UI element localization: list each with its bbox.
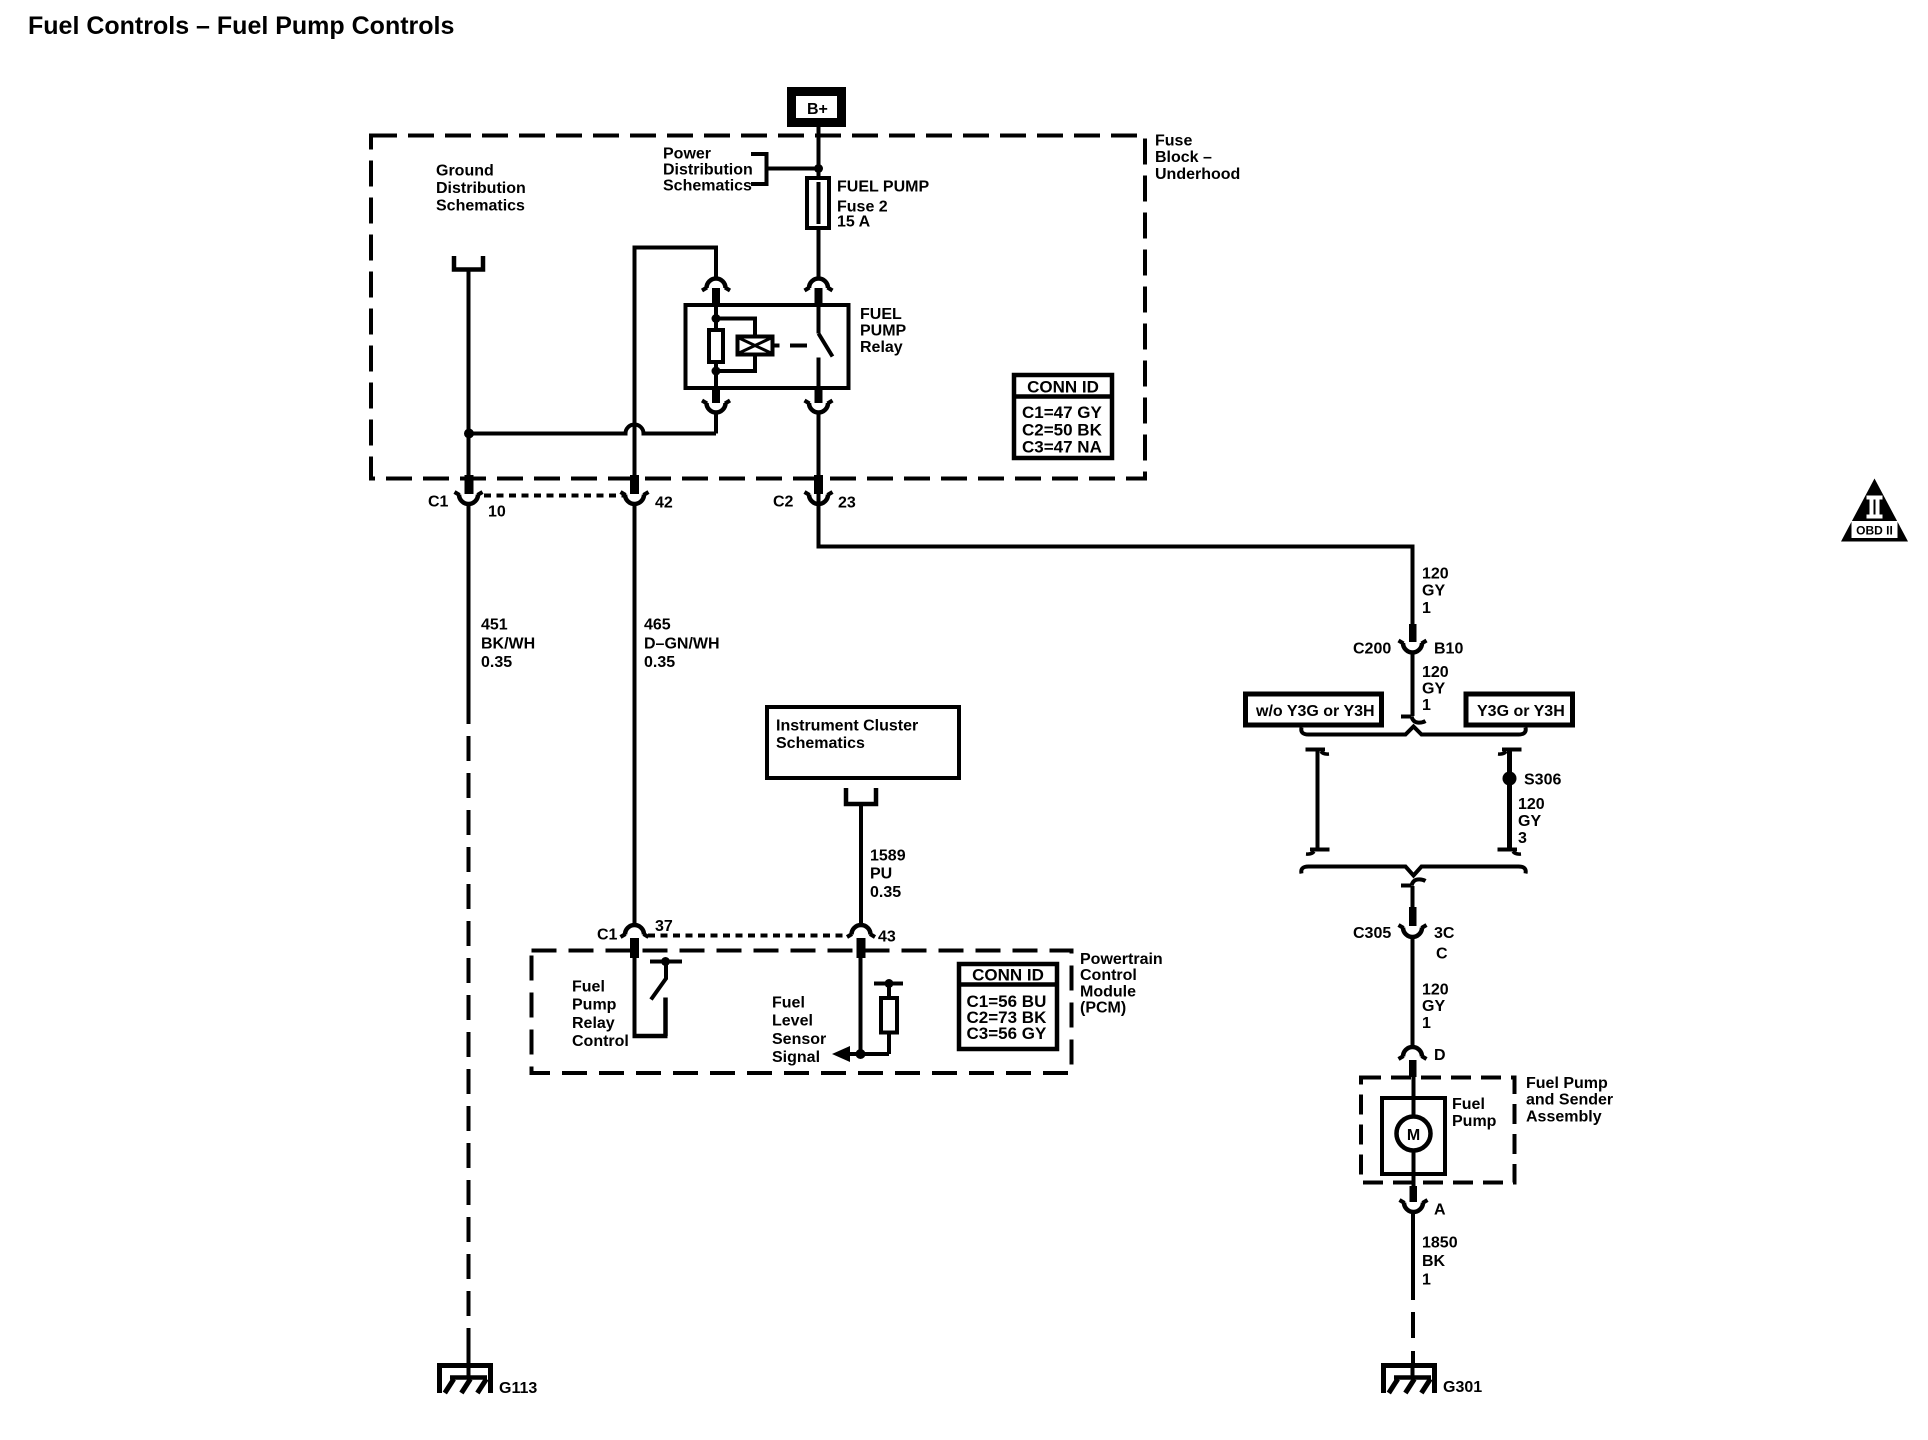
label 465 D-GN/WH 0.35 (644, 617, 720, 672)
svg-text:D–GN/WH: D–GN/WH (644, 636, 720, 653)
svg-text:0.35: 0.35 (870, 884, 901, 901)
CONN ID table PCM (959, 964, 1057, 1049)
wire 451 BK/WH solid part (467, 505, 471, 724)
label Fuel Pump Relay Control (572, 979, 629, 1051)
svg-text:Fuel Pump: Fuel Pump (1526, 1075, 1608, 1092)
wire 120 GY C305 to fuel pump D (1411, 938, 1415, 1049)
CONN ID table fuse block (1014, 375, 1112, 458)
svg-text:(PCM): (PCM) (1080, 1000, 1126, 1017)
ground G301 (1384, 1363, 1483, 1396)
svg-text:1: 1 (1422, 1015, 1431, 1032)
svg-text:C: C (1436, 946, 1448, 963)
wire coil to switch actuator dashed (773, 344, 780, 348)
branch right Y3G wire with splice (1498, 750, 1522, 855)
node coil top junction (712, 314, 721, 323)
instrument cluster tap symbol (846, 788, 876, 804)
svg-text:43: 43 (878, 929, 896, 946)
svg-text:Schematics: Schematics (436, 198, 525, 215)
svg-text:C200: C200 (1353, 641, 1391, 658)
wire 465 D-GN/WH pin42 to PCM pin37 (633, 505, 637, 925)
ground distribution tap symbol (454, 256, 483, 270)
wire power distribution tap (767, 167, 819, 171)
svg-text:Control: Control (572, 1033, 629, 1050)
svg-text:1589: 1589 (870, 848, 906, 865)
svg-text:Schematics: Schematics (776, 735, 865, 752)
label Ground Distribution Schematics (436, 163, 526, 215)
svg-text:1: 1 (1422, 1272, 1431, 1289)
label FUEL PUMP Fuse 2 15 A (837, 179, 929, 231)
node junction at B+ feed (814, 164, 823, 173)
label Fuel Level Sensor Signal (772, 995, 826, 1067)
fuel pump motor box (1382, 1098, 1445, 1174)
svg-text:A: A (1434, 1202, 1446, 1219)
battery feed B+ terminal (792, 92, 842, 123)
svg-text:451: 451 (481, 617, 508, 634)
relay coil branch left (714, 305, 718, 331)
svg-text:w/o Y3G or Y3H: w/o Y3G or Y3H (1255, 703, 1375, 720)
svg-text:Sensor: Sensor (772, 1031, 826, 1048)
svg-text:Ground: Ground (436, 163, 494, 180)
wire D to motor (1412, 1077, 1416, 1117)
wire 1589 PU instrument cluster to PCM pin43 (859, 804, 863, 925)
svg-text:23: 23 (838, 495, 856, 512)
svg-text:C1=47 GY: C1=47 GY (1022, 403, 1103, 422)
splice S306 (1503, 772, 1517, 786)
svg-text:10: 10 (488, 504, 506, 521)
svg-text:CONN ID: CONN ID (1027, 378, 1099, 397)
svg-text:FUEL: FUEL (860, 306, 902, 323)
svg-text:120: 120 (1518, 796, 1545, 813)
wire 1850 BK solid part (1411, 1213, 1415, 1301)
svg-text:Module: Module (1080, 984, 1136, 1001)
connector C1 pin 10 at fuse block (428, 475, 506, 521)
svg-text:1: 1 (1422, 600, 1431, 617)
node coil bottom junction (712, 367, 721, 376)
relay switch top connector (805, 279, 833, 306)
label 1589 PU 0.35 (870, 848, 906, 902)
option label box Y3G or Y3H (1466, 694, 1573, 725)
svg-text:GY: GY (1518, 813, 1541, 830)
label 120 GY 1 second (1422, 664, 1449, 714)
svg-text:BK/WH: BK/WH (481, 636, 535, 653)
option label box w/o Y3G or Y3H (1246, 694, 1382, 725)
relay FUEL PUMP Relay box (686, 305, 849, 388)
wire 120 GY C200 to option split (1411, 653, 1415, 716)
svg-text:GY: GY (1422, 998, 1445, 1015)
connector C2 pin 23 at fuse block (773, 475, 856, 512)
svg-text:465: 465 (644, 617, 671, 634)
svg-text:Fuel: Fuel (1452, 1096, 1485, 1113)
wire dotted connector face C1 (484, 494, 626, 498)
resistor relay coil suppression (709, 330, 723, 362)
svg-text:120: 120 (1422, 982, 1449, 999)
fuel pump relay control driver switch in PCM (633, 956, 683, 1036)
wire 451 BK/WH dashed part to G113 (467, 724, 471, 1351)
fuel pump and sender assembly dashed box (1361, 1078, 1515, 1183)
OBD II emissions triangle (1841, 479, 1908, 542)
wire fuse to relay switch pin (817, 228, 821, 279)
svg-text:Distribution: Distribution (663, 162, 753, 179)
svg-text:and Sender: and Sender (1526, 1092, 1613, 1109)
svg-text:Schematics: Schematics (663, 178, 752, 195)
power distribution bracket (751, 154, 767, 184)
wire motor to terminal A (1412, 1151, 1416, 1187)
wire 120 GY C2-23 to C200 (819, 494, 1413, 624)
svg-text:120: 120 (1422, 664, 1449, 681)
motor M fuel pump (1397, 1117, 1431, 1151)
svg-text:Assembly: Assembly (1526, 1109, 1602, 1126)
label 120 GY 3 (1518, 796, 1545, 847)
svg-text:BK: BK (1422, 1253, 1446, 1270)
label Fuel Pump (1452, 1096, 1497, 1130)
svg-text:S306: S306 (1524, 772, 1561, 789)
svg-text:Relay: Relay (860, 339, 903, 356)
svg-text:Fuel Controls – Fuel Pump Cont: Fuel Controls – Fuel Pump Controls (28, 12, 454, 40)
relay coil bottom connector (702, 388, 730, 413)
connector C1 pin 42 at fuse block (621, 475, 673, 512)
svg-text:D: D (1434, 1047, 1446, 1064)
svg-text:Pump: Pump (572, 997, 617, 1014)
svg-text:37: 37 (655, 918, 673, 935)
svg-text:3: 3 (1518, 830, 1527, 847)
wire relay switch bottom to C2 pin 23 (817, 413, 821, 477)
label FUEL PUMP Relay (860, 306, 907, 356)
svg-text:Level: Level (772, 1013, 813, 1030)
relay coil element (738, 337, 773, 355)
relay coil top connector (702, 279, 730, 306)
svg-text:G113: G113 (499, 1380, 537, 1397)
svg-text:PUMP: PUMP (860, 323, 907, 340)
wire relay coil bottom to ground distribution node (714, 413, 718, 434)
svg-text:Distribution: Distribution (436, 180, 526, 197)
svg-text:Signal: Signal (772, 1049, 820, 1066)
svg-text:CONN ID: CONN ID (972, 966, 1044, 985)
svg-text:3C: 3C (1434, 925, 1455, 942)
PCM dashed box (Powertrain Control Module) (532, 951, 1072, 1074)
svg-text:GY: GY (1422, 583, 1445, 600)
wire ground distribution to C1 pin 10 (467, 270, 471, 478)
connector C1 pin 37 at PCM (597, 918, 673, 958)
connector C200 pin B10 (1353, 624, 1463, 658)
svg-text:Instrument Cluster: Instrument Cluster (776, 718, 918, 735)
svg-text:Fuel: Fuel (772, 995, 805, 1012)
fuse FUEL PUMP Fuse 2 15A (807, 178, 829, 228)
wire merge to C305 (1411, 886, 1415, 907)
wire end mark at option split top (1401, 717, 1426, 723)
svg-text:Control: Control (1080, 967, 1137, 984)
wire B+ down to fuse (817, 127, 821, 180)
svg-text:Relay: Relay (572, 1015, 615, 1032)
svg-text:Power: Power (663, 146, 711, 163)
fuse block dashed box (Fuse Block - Underhood) (371, 136, 1145, 479)
svg-text:42: 42 (655, 495, 673, 512)
label Fuel Pump and Sender Assembly (1526, 1075, 1613, 1126)
svg-text:15 A: 15 A (837, 214, 871, 231)
svg-text:Powertrain: Powertrain (1080, 951, 1163, 968)
node junction ground distribution (464, 429, 474, 439)
svg-text:B+: B+ (807, 101, 828, 118)
svg-text:Pump: Pump (1452, 1113, 1497, 1130)
label Fuse Block - Underhood (1155, 133, 1240, 184)
svg-text:GY: GY (1422, 681, 1445, 698)
branch left w/o Y3G wire (1306, 750, 1330, 855)
wire dotted connector face C1 PCM (648, 934, 848, 938)
svg-text:120: 120 (1422, 566, 1449, 583)
wire 1850 BK dashed part to G301 (1411, 1300, 1415, 1349)
svg-text:FUEL PUMP: FUEL PUMP (837, 179, 929, 196)
ground G113 (440, 1363, 538, 1397)
wire start mark below merge (1401, 879, 1426, 885)
brace top option split (1301, 727, 1525, 735)
label 120 GY 1 first (1422, 566, 1449, 618)
connector fuel pump terminal D (1399, 1047, 1446, 1077)
svg-text:C3=47 NA: C3=47 NA (1022, 438, 1102, 457)
svg-text:C2: C2 (773, 494, 794, 511)
svg-text:0.35: 0.35 (481, 654, 512, 671)
label 1850 BK 1 (1422, 1235, 1458, 1289)
svg-text:C1: C1 (597, 927, 618, 944)
label Power Distribution Schematics (663, 146, 753, 195)
svg-text:C1: C1 (428, 494, 449, 511)
svg-text:0.35: 0.35 (644, 654, 675, 671)
wire relay coil feed loop to pin 42 (635, 248, 717, 478)
svg-text:OBD II: OBD II (1856, 524, 1893, 538)
relay switch bottom connector (805, 388, 833, 413)
label 451 BK/WH 0.35 (481, 617, 535, 672)
relay switch contacts (817, 305, 821, 334)
svg-text:1: 1 (1422, 697, 1431, 714)
connector fuel pump terminal A (1400, 1186, 1447, 1219)
wire horizontal with hop over pin42 wire (469, 425, 716, 434)
svg-text:B10: B10 (1434, 641, 1463, 658)
svg-text:PU: PU (870, 866, 892, 883)
svg-text:M: M (1407, 1127, 1420, 1144)
svg-text:Y3G or Y3H: Y3G or Y3H (1477, 703, 1565, 720)
connector C305 pin 3C cavity C (1353, 907, 1455, 963)
fuel level sensor signal input in PCM (832, 958, 903, 1062)
svg-text:Fuse: Fuse (1155, 133, 1192, 150)
svg-text:Block –: Block – (1155, 149, 1212, 166)
svg-text:C3=56 GY: C3=56 GY (967, 1024, 1048, 1043)
svg-text:G301: G301 (1443, 1379, 1482, 1396)
svg-text:1850: 1850 (1422, 1235, 1458, 1252)
svg-text:C305: C305 (1353, 925, 1391, 942)
Instrument Cluster Schematics box (767, 707, 959, 778)
connector C1 pin 43 at PCM (847, 925, 896, 958)
svg-text:Fuel: Fuel (572, 979, 605, 996)
brace bottom option merge (1301, 867, 1525, 876)
label Powertrain Control Module (PCM) (1080, 951, 1163, 1017)
wire coil parallel branch (716, 319, 755, 339)
label 120 GY 1 third (1422, 982, 1449, 1033)
svg-text:Underhood: Underhood (1155, 166, 1240, 183)
